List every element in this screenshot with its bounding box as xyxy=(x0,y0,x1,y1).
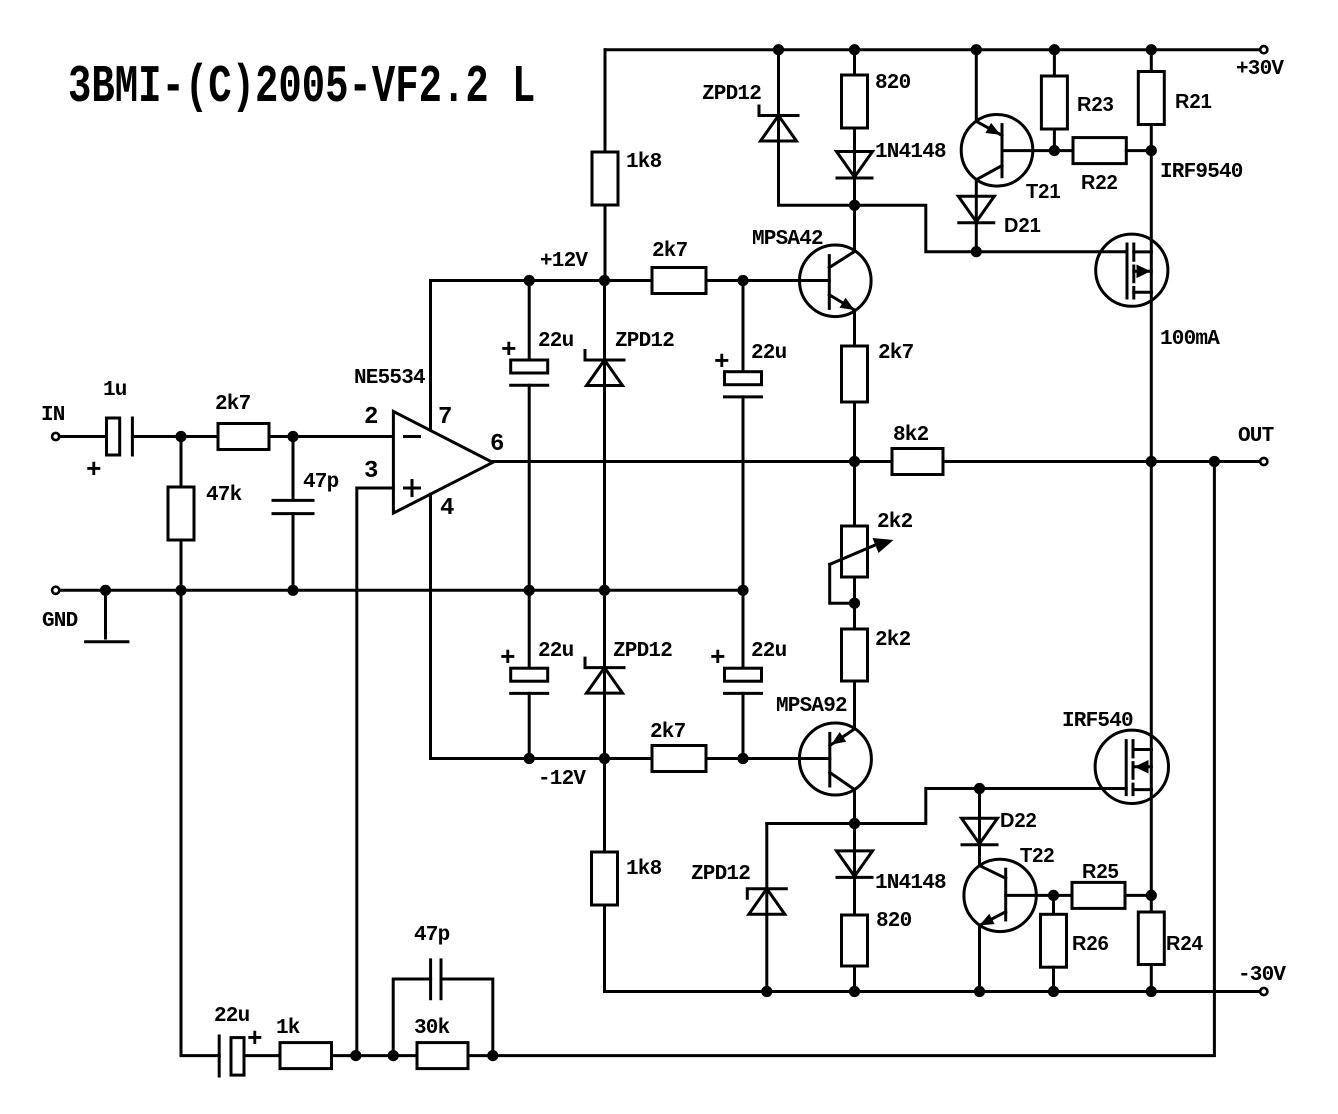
svg-text:47p: 47p xyxy=(303,471,339,494)
svg-text:22u: 22u xyxy=(538,640,574,663)
svg-text:22u: 22u xyxy=(751,342,787,365)
wire 2k7 to OUT line xyxy=(853,402,856,462)
arrowhead T22 emitter xyxy=(980,914,995,926)
node GND at x293 xyxy=(287,585,298,596)
svg-text:22u: 22u xyxy=(538,330,574,353)
svg-text:R24: R24 xyxy=(1166,933,1204,955)
transistor IRF540 N-MOSFET xyxy=(1095,730,1168,803)
svg-text:NE5534: NE5534 xyxy=(354,367,425,390)
svg-text:+: + xyxy=(247,1024,262,1054)
svg-text:1k8: 1k8 xyxy=(626,151,662,174)
svg-text:4: 4 xyxy=(440,495,454,522)
resistor 1k xyxy=(280,1043,332,1069)
node GND at x605 xyxy=(599,585,610,596)
zener diode ZPD12 upper-right xyxy=(759,106,798,116)
svg-text:R26: R26 xyxy=(1072,933,1109,955)
wire 2k7 to MPSA92 base xyxy=(706,757,830,760)
svg-text:8k2: 8k2 xyxy=(893,424,929,447)
node GND at x529 xyxy=(524,585,535,596)
wire up to C 47p feedback xyxy=(393,979,430,1056)
wire GND rail xyxy=(59,589,743,592)
resistor 30k xyxy=(417,1043,468,1069)
wire trimmer to R 2k2 xyxy=(853,577,856,629)
node OUT at MOSFET column xyxy=(1146,456,1157,467)
svg-text:OUT: OUT xyxy=(1238,425,1274,448)
svg-text:2k7: 2k7 xyxy=(652,240,688,263)
wire gate line through D22 to T22 collector xyxy=(978,789,981,866)
wire +30V to R 820 upper xyxy=(853,50,856,75)
op-amp U1 NE5534 xyxy=(393,411,492,513)
trimmer arrow xyxy=(830,542,884,565)
svg-text:IRF540: IRF540 xyxy=(1062,710,1133,733)
wire +30V to R23 xyxy=(1053,50,1056,76)
node wiper junction xyxy=(849,598,860,609)
wire upper bias to IRF9540 gate xyxy=(855,205,1128,251)
wire lower bias to ZD xyxy=(767,822,855,825)
wire C 22u A to C 22u C through GND xyxy=(528,385,531,668)
node IN junction xyxy=(175,431,186,442)
wire IRF540 inner lead xyxy=(1150,750,1153,790)
transistor T21 PNP xyxy=(961,115,1033,187)
capacitor 22u B xyxy=(725,372,762,385)
transistor Q1 MPSA42 NPN xyxy=(800,245,872,317)
wire T22 emitter to -30V rail xyxy=(978,925,981,991)
wire R24 to -30V rail xyxy=(1150,965,1153,992)
wire MPSA92 collector to lower bias node xyxy=(853,790,856,824)
node rail at R21 xyxy=(1146,44,1157,55)
wire OUT to trimmer xyxy=(853,462,856,527)
node rail at R26 xyxy=(1048,986,1059,997)
capacitor 22u A (+12V) xyxy=(511,360,548,373)
svg-text:820: 820 xyxy=(876,910,912,933)
node +30V terminal xyxy=(1260,46,1267,53)
wire OUT line left of 8k2 xyxy=(493,460,892,463)
svg-text:100mA: 100mA xyxy=(1160,328,1220,351)
diode 1N4148 lower xyxy=(837,851,873,877)
node 30k 47p left xyxy=(388,1050,399,1061)
wire C 22u B to C 22u D through GND xyxy=(742,397,745,668)
node GND at x181 xyxy=(175,585,186,596)
node +12V at ZPD12 xyxy=(599,275,610,286)
wire IN to C 1u xyxy=(59,435,106,438)
wire 2k2 to MPSA92 emitter xyxy=(853,681,856,729)
wire R 820 through 1N4148 to MPSA42 collector xyxy=(853,128,856,252)
node upper bias xyxy=(849,200,860,211)
svg-text:2k7: 2k7 xyxy=(215,393,251,416)
wire GND to feedback cap 22u xyxy=(181,590,219,1055)
resistor 1k8 upper xyxy=(592,152,618,205)
zener diode ZPD12 upper-mid xyxy=(585,351,624,361)
wire C 22u C to -12V rail xyxy=(528,693,531,758)
wire R26 to -30V rail xyxy=(1052,967,1055,991)
resistor R25 xyxy=(1072,882,1125,908)
node 30k 47p right xyxy=(487,1050,498,1061)
svg-text:IRF9540: IRF9540 xyxy=(1160,161,1243,184)
transistor T22 NPN xyxy=(964,859,1036,931)
node rail at ZPD12 xyxy=(773,44,784,55)
wire -30V rail xyxy=(605,990,1261,993)
capacitor 22u feedback xyxy=(218,1036,221,1076)
node IN terminal xyxy=(52,433,59,440)
svg-text:47p: 47p xyxy=(414,924,450,947)
resistor 1k8 lower xyxy=(592,852,618,905)
ground symbol xyxy=(104,590,107,638)
node +12V at C22u xyxy=(524,275,535,286)
wire R23 to base node xyxy=(1053,129,1056,151)
svg-text:GND: GND xyxy=(42,610,78,633)
resistor 47k to ground xyxy=(168,487,194,540)
wire C 22u to R 1k xyxy=(244,1054,280,1057)
svg-text:22u: 22u xyxy=(214,1005,250,1028)
arrowhead MPSA92 emitter xyxy=(831,732,846,745)
wire +30V through ZPD12 to 1N4148 node xyxy=(779,50,855,206)
svg-text:1N4148: 1N4148 xyxy=(875,872,946,895)
svg-text:+: + xyxy=(86,455,101,485)
node GND symbol junction xyxy=(100,585,111,596)
trimmer 2k2 xyxy=(842,526,868,577)
wire R 30k to OUT xyxy=(468,462,1214,1056)
wire to C 47p input xyxy=(292,437,295,501)
wire pin 4 to -12V rail xyxy=(429,494,432,758)
node rail at ZPD12 xyxy=(761,986,772,997)
svg-text:R21: R21 xyxy=(1175,91,1212,113)
wire T21 collector through D21 to gate line xyxy=(975,180,978,252)
wire pin 3 to feedback node xyxy=(357,488,394,1056)
resistor R24 xyxy=(1138,912,1164,965)
svg-text:R25: R25 xyxy=(1082,861,1119,883)
svg-text:R23: R23 xyxy=(1077,94,1114,116)
transistor Q2 MPSA92 PNP xyxy=(799,723,871,795)
svg-text:30k: 30k xyxy=(414,1017,450,1040)
svg-text:7: 7 xyxy=(438,404,452,431)
svg-text:2k7: 2k7 xyxy=(878,342,914,365)
node GND terminal xyxy=(52,587,59,594)
svg-text:MPSA42: MPSA42 xyxy=(752,228,823,251)
wire R 1k8 lower to -30V rail xyxy=(603,905,606,992)
wire C 47p to GND rail xyxy=(292,514,295,591)
diode D21 xyxy=(958,196,994,222)
svg-text:T21: T21 xyxy=(1026,181,1060,203)
svg-text:+: + xyxy=(501,335,516,365)
node D21 cathode on gate line xyxy=(971,246,982,257)
resistor 2k7 input series xyxy=(218,424,269,450)
wire T21 base to R22 xyxy=(1002,149,1073,152)
diode 1N4148 upper xyxy=(837,152,873,178)
node rail at T21 xyxy=(971,44,982,55)
svg-text:1k: 1k xyxy=(276,1017,300,1040)
resistor 2k2 lower xyxy=(842,629,868,681)
capacitor 1u input xyxy=(107,418,120,455)
node MPSA42 base junction xyxy=(737,275,748,286)
svg-text:+: + xyxy=(500,643,515,673)
resistor 820 lower xyxy=(842,915,868,966)
arrowhead T21 emitter xyxy=(985,123,1000,135)
wire IRF9540 inner lead xyxy=(1150,252,1153,292)
node rail at R24 xyxy=(1146,986,1157,997)
capacitor 47p input xyxy=(273,500,313,513)
resistor R21 xyxy=(1138,72,1164,125)
svg-text:1u: 1u xyxy=(103,379,127,402)
wire R 47k to GND rail xyxy=(180,540,183,590)
node T22 base R25 R26 xyxy=(1048,890,1059,901)
wire IRF9540 drain to OUT xyxy=(1150,292,1153,461)
node OUT at VAS column xyxy=(849,456,860,467)
svg-text:3: 3 xyxy=(364,458,378,485)
wire +30V rail xyxy=(605,48,1261,51)
resistor 2k7 upper base feed xyxy=(652,268,706,294)
wire node to R26 xyxy=(1052,895,1055,914)
svg-text:2k2: 2k2 xyxy=(875,629,911,652)
wire C 22u D to -12V rail xyxy=(742,693,745,758)
resistor 8k2 xyxy=(892,449,943,475)
svg-text:1N4148: 1N4148 xyxy=(875,141,946,164)
wire 2k7 to MPSA42 base xyxy=(706,279,829,282)
wire lower bias to IRF540 gate xyxy=(855,789,1127,824)
wire R21 to IRF9540 source xyxy=(1150,125,1153,252)
svg-text:6: 6 xyxy=(490,431,504,458)
wire node to R24 xyxy=(1150,895,1153,912)
svg-text:820: 820 xyxy=(875,72,911,95)
node rail at T22 xyxy=(974,986,985,997)
zener diode ZPD12 lower-left xyxy=(747,889,786,899)
wire R22 to IRF9540 source node xyxy=(1126,149,1151,152)
diode D22 xyxy=(962,818,998,844)
wire T22 base to R25 xyxy=(1006,894,1072,897)
svg-text:2k7: 2k7 xyxy=(650,721,686,744)
resistor R22 xyxy=(1073,138,1126,164)
wire +12V to C 22u B xyxy=(742,281,745,372)
wire OUT line right of 8k2 xyxy=(943,460,1261,463)
resistor R26 xyxy=(1041,914,1067,967)
node MPSA92 base junction xyxy=(737,753,748,764)
node -12V at C22u xyxy=(524,753,535,764)
wire trimmer wiper xyxy=(830,564,855,603)
arrowhead IRF540 body xyxy=(1135,760,1149,774)
node feedback inverting input xyxy=(350,1050,361,1061)
arrowhead IRF9540 body xyxy=(1137,265,1151,279)
svg-text:IN: IN xyxy=(41,404,65,427)
node -30V terminal xyxy=(1260,988,1267,995)
svg-text:MPSA92: MPSA92 xyxy=(776,695,847,718)
wire +12V rail xyxy=(431,279,653,282)
wire through ZPD12 lower-left to -30V rail xyxy=(765,824,768,992)
svg-text:-12V: -12V xyxy=(538,768,586,791)
node D22 anode on gate line xyxy=(974,783,985,794)
svg-text:T22: T22 xyxy=(1020,845,1054,867)
svg-text:+: + xyxy=(714,347,729,377)
svg-text:2: 2 xyxy=(364,404,378,431)
capacitor 47p feedback xyxy=(431,960,441,999)
node rail at 820 xyxy=(849,44,860,55)
capacitor 22u C (-12V) xyxy=(511,668,548,681)
resistor R23 xyxy=(1041,76,1067,129)
wire +30V to R21 xyxy=(1150,50,1153,72)
wire pin 7 to +12V rail xyxy=(429,281,432,431)
wire R25 to R24 node xyxy=(1125,894,1151,897)
wire C 47p to node xyxy=(441,979,493,1056)
resistor 2k7 mid xyxy=(842,346,868,402)
wire R 820 to -30V rail xyxy=(853,966,856,992)
resistor 820 upper xyxy=(842,75,868,128)
wire lower bias through 1N4148 to R 820 lower xyxy=(853,824,856,916)
svg-text:D22: D22 xyxy=(1000,810,1037,832)
wire OUT to IRF540 drain xyxy=(1150,462,1153,750)
wire R 1k to R 30k xyxy=(332,1054,418,1057)
svg-text:ZPD12: ZPD12 xyxy=(613,640,672,663)
node rail at 820 xyxy=(849,986,860,997)
svg-text:47k: 47k xyxy=(206,484,242,507)
svg-text:2k2: 2k2 xyxy=(877,511,913,534)
wire +30V to R 1k8 xyxy=(604,50,607,152)
svg-text:R22: R22 xyxy=(1081,172,1118,194)
node rail at R23 xyxy=(1049,44,1060,55)
node pin2 junction xyxy=(287,431,298,442)
arrowhead MPSA42 emitter xyxy=(840,298,855,310)
wire MPSA42 emitter to R 2k7 xyxy=(853,310,856,346)
wire to R 47k xyxy=(180,437,183,488)
node R21 R22 junction xyxy=(1146,145,1157,156)
node GND at x743 xyxy=(737,585,748,596)
wire C 1u to R 2k7 xyxy=(132,435,218,438)
resistor 2k7 lower base feed xyxy=(652,746,706,772)
svg-text:+: + xyxy=(710,643,725,673)
wire R 2k7 to op-amp pin 2 xyxy=(269,435,393,438)
svg-text:3BMI-(C)2005-VF2.2 L: 3BMI-(C)2005-VF2.2 L xyxy=(68,57,535,117)
wire -12V rail xyxy=(431,757,653,760)
svg-text:ZPD12: ZPD12 xyxy=(702,83,761,106)
wire R 1k8 to +12V rail xyxy=(604,205,607,281)
node OUT feedback takeoff xyxy=(1209,456,1220,467)
transistor IRF9540 P-MOSFET xyxy=(1096,234,1168,306)
svg-text:1k8: 1k8 xyxy=(626,858,662,881)
svg-text:+30V: +30V xyxy=(1236,58,1284,81)
node R23 R22 T21 base xyxy=(1049,145,1060,156)
capacitor 22u D xyxy=(725,668,762,681)
wire +12V through both ZPD12 to R 1k8 lower xyxy=(603,281,606,853)
svg-text:ZPD12: ZPD12 xyxy=(615,330,674,353)
node OUT terminal xyxy=(1260,458,1267,465)
svg-text:D21: D21 xyxy=(1004,215,1041,237)
svg-text:+12V: +12V xyxy=(540,250,588,273)
svg-text:ZPD12: ZPD12 xyxy=(691,863,750,886)
zener diode ZPD12 lower-mid xyxy=(585,658,624,668)
svg-text:22u: 22u xyxy=(751,640,787,663)
node R25 R24 IRF540 source xyxy=(1146,890,1157,901)
wire +12V to C 22u A xyxy=(528,281,531,361)
wire IRF540 source to R24 node xyxy=(1150,790,1153,896)
svg-text:-30V: -30V xyxy=(1238,964,1286,987)
wire +30V to T21 emitter xyxy=(975,50,978,122)
node -12V at ZPD12 xyxy=(599,753,610,764)
node lower bias xyxy=(849,818,860,829)
